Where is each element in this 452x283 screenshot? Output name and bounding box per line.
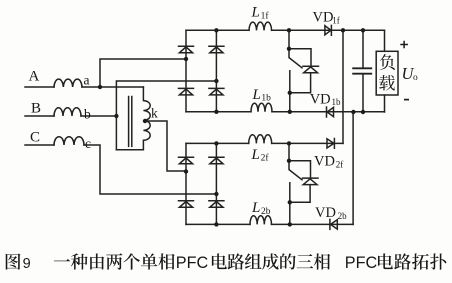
wire k tap to bottom bridge bbox=[145, 121, 186, 171]
node a bbox=[98, 85, 102, 89]
svg-text:c: c bbox=[85, 136, 91, 151]
diode VD1b bbox=[327, 107, 334, 117]
svg-text:2b: 2b bbox=[338, 211, 348, 221]
wire B2 right leg bbox=[215, 143, 217, 224]
svg-text:2b: 2b bbox=[261, 207, 271, 217]
wire B1 right leg bbox=[215, 30, 217, 112]
node B2 right leg bottom bbox=[214, 222, 218, 226]
inductor phase A bbox=[54, 79, 82, 87]
svg-text:o: o bbox=[413, 73, 418, 83]
diode B2 lower-right bbox=[209, 201, 224, 208]
node VD2b riser top bbox=[351, 110, 355, 114]
node S1 bottom rail bbox=[288, 110, 292, 114]
svg-text:1f: 1f bbox=[261, 10, 270, 21]
diode VD2b bbox=[330, 219, 337, 229]
switch S1 bbox=[289, 30, 302, 112]
node VD2f riser top bbox=[341, 28, 345, 32]
svg-text:VD: VD bbox=[310, 91, 331, 107]
svg-text:PFC: PFC bbox=[176, 254, 209, 272]
svg-text:1f: 1f bbox=[332, 15, 340, 25]
diode B2 upper-left bbox=[179, 157, 194, 164]
inductor L1f bbox=[249, 22, 272, 30]
wire B2 bottom rail bbox=[186, 223, 353, 225]
diode VD2f bbox=[327, 139, 334, 149]
wire B2 top rail bbox=[186, 142, 343, 144]
label + bbox=[400, 41, 408, 49]
node B2 right leg mid (c) bbox=[214, 192, 218, 196]
svg-text:A: A bbox=[29, 69, 40, 85]
diode B1 upper-left bbox=[179, 46, 194, 53]
svg-text:L: L bbox=[252, 87, 261, 103]
wire load bottom connector bbox=[384, 95, 386, 112]
caption text part 2 bbox=[212, 253, 330, 269]
svg-text:C: C bbox=[30, 129, 40, 145]
node k-left-leg bbox=[184, 169, 188, 173]
node b bbox=[114, 114, 118, 118]
svg-text:a: a bbox=[84, 73, 90, 88]
wire phase A line bbox=[25, 86, 143, 88]
node B2 right leg top bbox=[214, 141, 218, 145]
capacitor C1 bbox=[362, 30, 364, 112]
node k bbox=[143, 119, 147, 123]
diode B1 upper-right bbox=[209, 46, 224, 53]
node B1 right leg mid bbox=[214, 79, 218, 83]
svg-text:2f: 2f bbox=[261, 153, 270, 164]
node B1 right leg bottom bbox=[214, 110, 218, 114]
wire VD2b riser to - rail bbox=[352, 112, 354, 224]
wire VD2f riser to + rail bbox=[342, 30, 344, 143]
switch S2 antiparallel diode branch bbox=[289, 161, 318, 203]
transformer T1 primary (left winding + top link to right leg) bbox=[116, 81, 216, 150]
diode B1 lower-right bbox=[209, 88, 224, 95]
load box bbox=[376, 51, 398, 95]
node S1 top rail bbox=[287, 28, 291, 32]
inductor L2f bbox=[249, 135, 272, 144]
diode B1 lower-left bbox=[179, 88, 194, 95]
svg-text:VD: VD bbox=[313, 10, 334, 26]
svg-text:B: B bbox=[31, 101, 41, 117]
switch S2 bbox=[289, 143, 302, 224]
wire top bridge bottom rail bbox=[186, 111, 385, 113]
caption figure label 图9 bbox=[6, 254, 21, 270]
load text 载 bbox=[379, 75, 395, 91]
node S2 lower bbox=[288, 200, 292, 204]
node cap top bbox=[361, 28, 365, 32]
inductor phase B bbox=[54, 108, 81, 116]
wire phase B line bbox=[25, 115, 116, 117]
svg-text:9: 9 bbox=[23, 256, 31, 272]
inductor L2b bbox=[250, 216, 271, 225]
wire phase C line bbox=[25, 145, 216, 194]
diode B2 lower-left bbox=[179, 201, 194, 208]
caption text part 1 bbox=[54, 253, 175, 269]
svg-text:1b: 1b bbox=[332, 97, 342, 107]
svg-text:b: b bbox=[84, 106, 91, 121]
node cap bottom bbox=[361, 110, 365, 114]
svg-text:VD: VD bbox=[314, 154, 335, 170]
node S2 upper bbox=[287, 159, 291, 163]
transformer T1 core bbox=[129, 97, 132, 147]
svg-text:VD: VD bbox=[315, 205, 336, 221]
node B1 right leg top bbox=[214, 28, 218, 32]
node S1 lower bbox=[288, 91, 292, 95]
wire B1 left leg bbox=[185, 30, 187, 112]
wire a riser to top bridge bbox=[100, 59, 186, 87]
switch S1 antiparallel diode branch bbox=[289, 49, 319, 93]
svg-text:L: L bbox=[251, 200, 260, 216]
svg-text:k: k bbox=[151, 105, 158, 120]
transformer T1 secondary winding bbox=[116, 87, 150, 150]
wire load top connector bbox=[384, 30, 386, 51]
node S2 top rail bbox=[287, 141, 291, 145]
node a-left-leg bbox=[184, 57, 188, 61]
svg-text:2f: 2f bbox=[336, 159, 344, 169]
diode B2 upper-right bbox=[209, 157, 224, 164]
inductor L1b bbox=[251, 103, 272, 112]
node S1 upper bbox=[287, 47, 291, 51]
svg-text:1b: 1b bbox=[261, 94, 271, 104]
svg-text:PFC: PFC bbox=[345, 254, 378, 272]
load text 负 bbox=[380, 54, 395, 70]
wire B2 left leg bbox=[185, 143, 187, 224]
label - bbox=[404, 99, 409, 101]
node S2 bottom rail bbox=[288, 222, 292, 226]
wire top DC rail bbox=[186, 29, 385, 31]
caption text part 3 bbox=[378, 253, 446, 269]
inductor phase C bbox=[54, 137, 84, 145]
svg-text:L: L bbox=[251, 147, 260, 163]
diode VD1f bbox=[325, 25, 332, 35]
svg-text:L: L bbox=[251, 5, 260, 21]
